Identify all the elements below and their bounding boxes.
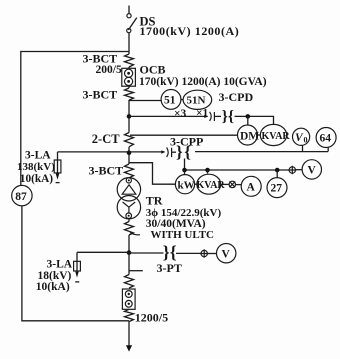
svg-text:10(kA): 10(kA) bbox=[20, 173, 53, 185]
svg-text:170(kV) 1200(A) 10(GVA): 170(kV) 1200(A) 10(GVA) bbox=[139, 76, 267, 88]
svg-text:3-LA: 3-LA bbox=[47, 259, 73, 271]
svg-text:3-PT: 3-PT bbox=[157, 261, 182, 275]
svg-text:64: 64 bbox=[320, 133, 332, 145]
svg-text:87: 87 bbox=[15, 191, 27, 203]
svg-text:1200/5: 1200/5 bbox=[135, 311, 168, 325]
svg-text:138(kV): 138(kV) bbox=[17, 161, 55, 173]
svg-text:0: 0 bbox=[304, 136, 308, 145]
svg-text:51N: 51N bbox=[187, 95, 206, 107]
svg-text:27: 27 bbox=[271, 183, 283, 195]
svg-text:×3: ×3 bbox=[174, 108, 187, 120]
svg-text:×1: ×1 bbox=[196, 108, 209, 120]
svg-text:10(kA): 10(kA) bbox=[36, 281, 70, 293]
svg-text:3-BCT: 3-BCT bbox=[89, 163, 124, 177]
svg-text:200/5: 200/5 bbox=[96, 64, 122, 76]
svg-text:3-CPP: 3-CPP bbox=[170, 134, 203, 148]
svg-text:3-CPD: 3-CPD bbox=[219, 90, 254, 104]
svg-text:}{: }{ bbox=[163, 242, 177, 262]
svg-text:3-BCT: 3-BCT bbox=[83, 88, 118, 102]
svg-text:kW: kW bbox=[178, 179, 195, 191]
svg-text:DM: DM bbox=[240, 130, 259, 142]
svg-text:KVAR: KVAR bbox=[262, 131, 291, 142]
svg-text:A: A bbox=[247, 182, 256, 194]
svg-text:KVAR: KVAR bbox=[197, 180, 226, 191]
svg-text:2-CT: 2-CT bbox=[92, 132, 120, 146]
svg-text:WITH ULTC: WITH ULTC bbox=[151, 229, 215, 241]
svg-text:V: V bbox=[222, 248, 231, 260]
svg-text:TR: TR bbox=[146, 194, 163, 208]
svg-text:1700(kV) 1200(A): 1700(kV) 1200(A) bbox=[140, 24, 240, 38]
svg-text:V: V bbox=[308, 165, 317, 177]
svg-text:3-LA: 3-LA bbox=[25, 150, 51, 162]
svg-text:OCB: OCB bbox=[140, 62, 166, 76]
svg-text:}{: }{ bbox=[222, 108, 234, 125]
svg-text:51: 51 bbox=[164, 95, 176, 107]
